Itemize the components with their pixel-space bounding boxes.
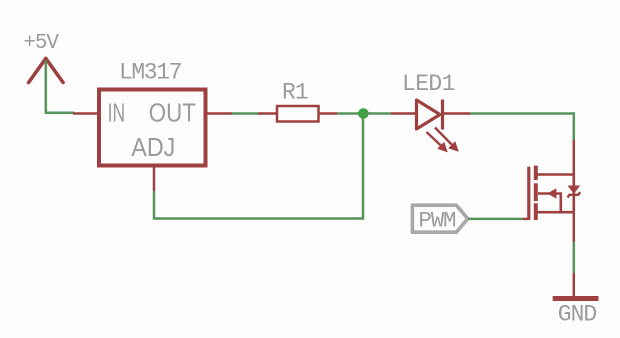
svg-text:+5V: +5V: [23, 32, 59, 55]
wire PWM to gate: [468, 218, 523, 221]
label LM317: [119, 60, 181, 86]
svg-text:R1: R1: [282, 79, 308, 105]
op-amp U1 LM317 box: [99, 90, 206, 166]
wire ADJ to node: [154, 118, 363, 219]
transistor Q1 body line: [572, 175, 575, 213]
LED light arrow 1: [427, 132, 448, 152]
diode D cathode bar: [568, 192, 581, 197]
pin R1 left stub: [258, 112, 277, 115]
pin LED1 cathode stub: [444, 112, 470, 115]
power +5V label: [23, 32, 59, 55]
ground bar: [553, 296, 599, 301]
svg-text:PWM: PWM: [418, 207, 456, 233]
node junction dot: [358, 108, 369, 119]
label PWM: [418, 207, 456, 233]
pin Q1 source stub: [573, 212, 576, 242]
pin name IN: [108, 100, 126, 128]
wire LED1 to drain corner: [470, 114, 574, 141]
transistor Q1 channel bar middle: [534, 183, 538, 201]
svg-text:LED1: LED1: [402, 71, 455, 97]
svg-text:ADJ: ADJ: [131, 134, 175, 162]
transistor Q1 gate line: [527, 167, 530, 220]
svg-text:IN: IN: [108, 100, 126, 128]
svg-text:OUT: OUT: [149, 100, 196, 128]
transistor Q1 channel bar top: [534, 166, 538, 180]
pin name ADJ: [131, 134, 175, 162]
transistor Q1 channel bar bottom: [534, 203, 538, 220]
transistor Q1 drain connection: [536, 173, 574, 176]
net flag PWM: [412, 205, 467, 232]
LED light arrow 2: [435, 128, 459, 152]
LED LED1 triangle: [417, 100, 441, 129]
LED LED1 cathode bar: [441, 100, 444, 130]
label R1: [282, 79, 308, 105]
pin name OUT: [149, 100, 196, 128]
wire +5V to IN: [46, 61, 74, 113]
pin LED1 anode stub: [391, 112, 416, 115]
pin Q1 gate stub: [523, 218, 529, 221]
svg-text:GND: GND: [558, 302, 597, 328]
wire R1 to node: [337, 112, 363, 115]
resistor R1 body: [277, 106, 319, 122]
label LED1: [402, 71, 455, 97]
pin ADJ stub: [153, 166, 156, 191]
svg-text:LM317: LM317: [119, 60, 181, 86]
ground pin stub: [573, 273, 576, 297]
pin Q1 drain stub: [573, 140, 576, 175]
wire source to GND: [573, 242, 576, 273]
diode D body triangle: [569, 186, 580, 193]
transistor Q1 bulk arrow: [538, 188, 561, 212]
transistor Q1 source connection: [536, 211, 574, 214]
label GND: [558, 302, 597, 328]
pin OUT stub: [207, 112, 233, 115]
wire node to LED1: [363, 112, 391, 115]
power +5V arrow symbol: [29, 58, 64, 82]
wire OUT to R1: [232, 112, 258, 115]
pin R1 right stub: [319, 112, 338, 115]
pin IN stub: [73, 112, 98, 115]
